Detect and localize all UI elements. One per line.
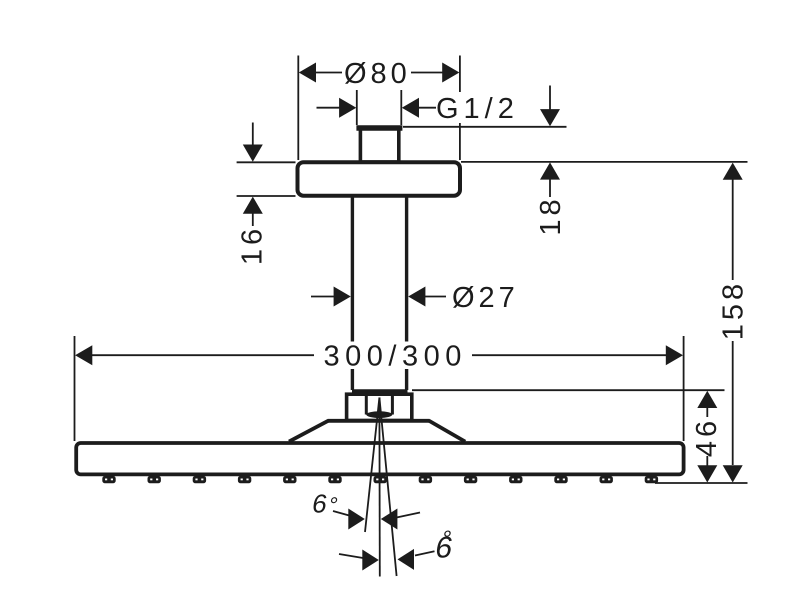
cone right slope	[429, 421, 465, 442]
dimension D80 extension lines	[298, 56, 460, 161]
dimension 16 extension lines	[237, 162, 296, 196]
dimension 46 extension lines	[412, 390, 748, 483]
pipe collar	[352, 389, 408, 394]
angle 6 upper arrows	[333, 509, 420, 530]
shower head plate	[76, 443, 683, 474]
svg-text:158: 158	[718, 280, 750, 340]
cone left slope	[289, 421, 329, 442]
pipe	[352, 195, 406, 390]
dimension D80	[299, 58, 460, 90]
dimension 158	[718, 163, 750, 483]
angle 6 lower arrows	[339, 549, 435, 571]
dimension 18	[535, 86, 567, 236]
dimension 18 extension lines	[403, 127, 748, 162]
spray line right	[379, 398, 396, 577]
dimension D27	[311, 282, 519, 314]
spray line center	[378, 398, 380, 577]
dimension G1/2	[317, 92, 523, 125]
thread connector body	[360, 128, 398, 162]
ball joint slot	[366, 396, 392, 415]
spray nozzles	[102, 476, 658, 483]
angle 6 lower label	[433, 526, 457, 565]
dimension 300/300	[75, 341, 683, 373]
svg-text:16: 16	[237, 225, 269, 265]
dimension 16	[237, 123, 269, 266]
svg-text:Ø80: Ø80	[344, 58, 411, 90]
thread connector top bar	[356, 125, 402, 131]
svg-text:G1/2: G1/2	[436, 93, 519, 125]
cone plateau	[328, 419, 430, 423]
pivot housing	[347, 394, 412, 420]
ceiling flange	[298, 162, 461, 196]
svg-text:300/300: 300/300	[324, 341, 467, 373]
svg-text:46: 46	[691, 417, 723, 457]
svg-text:18: 18	[535, 195, 567, 235]
dimension 46	[691, 391, 723, 483]
angle 6 upper label	[310, 489, 341, 519]
dimension 300/300 extension lines	[75, 336, 684, 441]
svg-text:Ø27: Ø27	[452, 282, 519, 314]
spray line left	[365, 398, 379, 533]
ball joint dome	[366, 411, 392, 418]
dimension G1/2 extension lines	[357, 90, 402, 125]
